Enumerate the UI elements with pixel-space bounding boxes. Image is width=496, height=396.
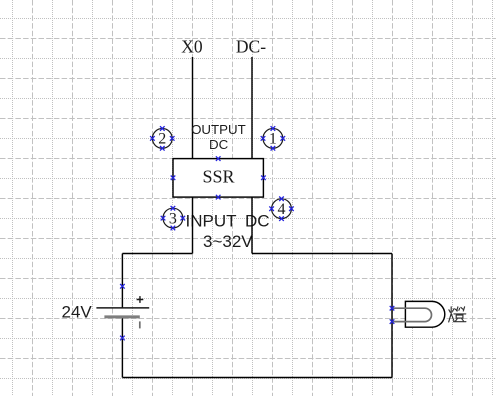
pin markers of circle 2	[150, 126, 174, 150]
polarity minus	[139, 321, 141, 328]
wire X0 to SSR output	[192, 57, 194, 158]
wire lamp branch vertical	[391, 254, 393, 378]
wire SSR input pin4 down	[251, 197, 253, 253]
wire battery branch down to battery plus	[121, 254, 123, 309]
battery negative plate	[104, 315, 139, 318]
svg-text:X0: X0	[181, 37, 203, 57]
pin marker lamp bottom lead	[390, 319, 395, 324]
svg-text:1: 1	[269, 131, 277, 148]
pin markers of circle 4	[269, 197, 293, 221]
value label 燈	[449, 307, 466, 322]
pin markers of circle 3	[161, 206, 185, 230]
battery positive plate	[96, 307, 149, 309]
svg-text:DC-: DC-	[236, 37, 266, 57]
svg-text:DC: DC	[245, 212, 270, 231]
svg-text:DC: DC	[209, 137, 229, 152]
svg-text:OUTPUT: OUTPUT	[191, 122, 246, 137]
svg-text:24V: 24V	[62, 302, 93, 321]
svg-text:4: 4	[278, 201, 286, 218]
lamp filament	[392, 308, 431, 321]
wire right horizontal to lamp branch	[252, 253, 392, 255]
svg-text:3~32V: 3~32V	[203, 232, 253, 251]
lamp body	[405, 301, 444, 327]
pin number circle 4	[272, 199, 292, 219]
wire battery minus down	[121, 317, 123, 378]
junction marker on battery branch lower	[120, 336, 125, 341]
pin markers of circle 1	[261, 126, 285, 150]
pin markers of SSR body	[171, 156, 266, 199]
SSR module body	[173, 159, 263, 198]
junction marker on battery branch upper	[120, 284, 125, 289]
wire DC- to SSR output	[251, 57, 253, 158]
wire SSR input pin3 down	[192, 197, 194, 253]
wire left horizontal to battery branch	[122, 253, 192, 255]
svg-text:2: 2	[158, 131, 166, 148]
svg-text:SSR: SSR	[202, 166, 234, 186]
wire bottom return	[122, 377, 392, 379]
pin number circle 2	[152, 129, 172, 149]
polarity plus	[137, 296, 144, 303]
pin number circle 1	[263, 129, 283, 149]
pin marker lamp top lead	[390, 306, 395, 311]
svg-text:3: 3	[169, 210, 177, 227]
pin number circle 3	[163, 208, 183, 228]
